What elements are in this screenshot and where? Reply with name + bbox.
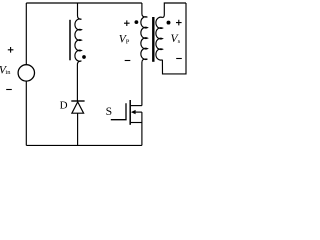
label Vp: [119, 34, 130, 46]
+ label of Vs: [176, 20, 182, 26]
core bar of LM: [69, 20, 71, 61]
transformer core bar: [152, 17, 154, 62]
wire: left vertical above source: [25, 3, 27, 65]
wire: primary top rail: [26, 2, 142, 4]
wire: source vertical to bottom rail: [141, 112, 143, 145]
label Vin: [0, 65, 11, 77]
dot (polarity) of secondary: [167, 21, 171, 25]
dot (polarity) of primary: [135, 20, 139, 24]
wire: magnetizing branch top lead: [78, 3, 82, 19]
svg-text:s: s: [178, 38, 181, 45]
minus label of Vs: [176, 58, 182, 60]
inductor LM (magnetizing): [75, 19, 81, 61]
transformer primary winding Vp: [141, 17, 148, 60]
wire: magnetizing branch lower lead: [77, 61, 81, 101]
drain stub: [131, 105, 142, 107]
wire: diode to bottom rail: [77, 113, 79, 145]
wire: left vertical below source: [25, 81, 27, 145]
+ label of Vin: [8, 47, 14, 53]
wire: secondary bottom lead and output loop: [162, 3, 186, 74]
voltage source Vin: [18, 65, 34, 81]
label Vs: [171, 33, 181, 45]
svg-text:in: in: [5, 69, 11, 76]
wire: secondary winding top lead: [162, 3, 186, 18]
arrow stub with arrowhead: [135, 111, 142, 113]
label S: [106, 105, 113, 118]
source stub: [131, 122, 142, 124]
svg-text:D: D: [60, 99, 68, 111]
minus label of Vin: [6, 89, 12, 91]
minus label of Vp: [125, 60, 131, 62]
wire: primary winding bottom lead to switch drain: [142, 59, 148, 106]
dot (polarity) of LM: [82, 55, 86, 59]
svg-text:P: P: [126, 38, 130, 45]
transformer secondary winding Vs: [156, 17, 163, 60]
label D: [60, 99, 68, 111]
wire: bottom rail: [26, 144, 142, 146]
+ label of Vp: [124, 20, 130, 26]
gate lead: [111, 103, 126, 119]
channel bar: [129, 100, 131, 125]
wire: primary winding top lead: [142, 3, 148, 17]
transistor S (MOSFET switch): [111, 100, 142, 145]
svg-text:S: S: [106, 105, 113, 118]
diode D: [71, 101, 84, 113]
